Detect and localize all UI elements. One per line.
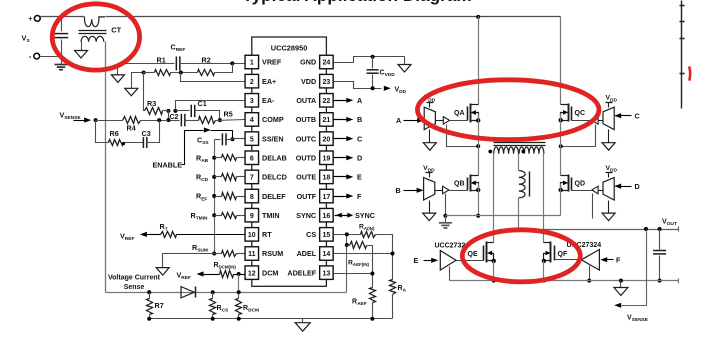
node RAEF bottom	[370, 317, 374, 321]
svg-text:C: C	[635, 111, 640, 120]
wire driver A return	[447, 125, 479, 147]
node output cap bottom	[658, 279, 662, 283]
svg-text:OUTE: OUTE	[296, 173, 316, 182]
wire B input arrow	[404, 190, 418, 192]
wire T1 right lead	[543, 154, 545, 243]
wire current sense up to CS pin	[346, 235, 348, 293]
svg-text:7: 7	[250, 175, 254, 182]
wire C1 to COMP node	[195, 111, 220, 121]
wire CREF to pin1	[180, 63, 245, 65]
wire QD source to rail	[560, 184, 562, 216]
capacitor CVDD	[372, 57, 374, 69]
wire C input arrow	[621, 115, 632, 117]
wire RAEFIN down	[367, 246, 373, 288]
driver C output buffer triangle	[592, 117, 598, 125]
svg-text:C1: C1	[198, 99, 207, 108]
svg-text:21: 21	[323, 117, 331, 124]
wire delay bus	[214, 140, 216, 254]
resistor R1	[144, 72, 155, 74]
svg-text:OUTC: OUTC	[296, 134, 316, 143]
capacitor CSS	[215, 139, 221, 141]
wire driver F return	[589, 266, 591, 281]
red ellipse around QA QC	[417, 80, 599, 140]
wire OUTA arrow	[334, 100, 348, 102]
wire + rail continues	[106, 16, 561, 18]
wire ENABLE	[182, 131, 204, 165]
svg-text:22: 22	[323, 98, 331, 105]
capacitor input	[61, 17, 63, 32]
svg-text:F: F	[616, 255, 621, 264]
svg-text:B: B	[357, 115, 362, 124]
wire VSENSE arrow	[74, 120, 87, 122]
wire T1 center tap	[518, 154, 520, 171]
resistor R7	[149, 293, 151, 299]
svg-text:RSUM: RSUM	[262, 249, 283, 258]
pin 1 box	[245, 55, 258, 69]
svg-text:12: 12	[248, 270, 256, 277]
resistor REF	[215, 196, 222, 198]
svg-text:13: 13	[323, 270, 331, 277]
svg-text:DELEF: DELEF	[262, 192, 286, 201]
pin 22 box	[320, 94, 334, 108]
wire VSENSE to R4	[96, 120, 123, 122]
red ellipse around QE QF	[462, 230, 580, 282]
svg-text:UCC28950: UCC28950	[271, 44, 308, 53]
node RCS top	[211, 290, 215, 294]
pin 21 box	[320, 113, 334, 127]
ground RSUM	[156, 268, 169, 276]
node T1 dot center	[521, 150, 525, 154]
svg-text:GND: GND	[300, 58, 316, 67]
pin 6 box	[245, 151, 258, 165]
transistor QE	[487, 242, 494, 244]
node RAB	[212, 156, 216, 160]
pin 14 box	[320, 247, 334, 261]
pin 15 box	[320, 228, 334, 242]
transistor QB	[467, 178, 469, 191]
wire QC leg bus upper	[560, 17, 562, 105]
resistor R4	[123, 117, 141, 124]
wire OUTE arrow	[334, 176, 348, 178]
node VOUT sense tap	[644, 227, 648, 231]
wire CS row	[334, 234, 361, 236]
ground bridge rail earth	[445, 216, 447, 223]
svg-text:3: 3	[250, 98, 254, 105]
pin 2 box	[245, 74, 258, 88]
svg-text:C2: C2	[170, 114, 179, 121]
wire R4 to node	[141, 120, 169, 122]
page border line	[681, 1, 683, 109]
wire driver D return	[592, 194, 594, 219]
resistor RAEF	[370, 288, 376, 303]
capacitor C1	[190, 105, 192, 118]
node COMP	[218, 118, 222, 122]
wire A input arrow	[404, 120, 418, 122]
wire F input arrow	[607, 259, 614, 261]
pin 12 box	[245, 266, 258, 280]
driver C buffer	[603, 107, 614, 129]
node driver B return	[443, 214, 447, 218]
inductor LOUT core bar	[529, 172, 531, 197]
ground bottom rail	[302, 319, 304, 323]
wire EA+ from divider	[181, 73, 245, 82]
svg-text:R5: R5	[224, 110, 233, 119]
svg-text:ENABLE: ENABLE	[153, 160, 183, 169]
wire - rail	[40, 56, 62, 58]
wire QB gate	[449, 190, 468, 192]
wire C2-R5	[185, 120, 199, 122]
svg-text:4: 4	[250, 117, 254, 124]
svg-text:2: 2	[250, 79, 254, 86]
driver D ground	[608, 201, 610, 214]
svg-text:R1: R1	[157, 55, 166, 64]
svg-text:1: 1	[250, 60, 254, 67]
resistor RT	[161, 232, 177, 238]
ground GND pin	[404, 57, 406, 65]
svg-text:24: 24	[323, 60, 331, 67]
node CS tap	[345, 232, 349, 236]
svg-text:RT: RT	[262, 230, 272, 239]
wire LOUT to VOUT rail	[518, 198, 520, 230]
svg-text:E: E	[414, 256, 419, 265]
resistor RCD	[215, 176, 222, 178]
wire QC-QD bus	[560, 114, 562, 176]
driver UCC27324 left triangle	[440, 251, 456, 271]
resistor R3	[144, 73, 145, 111]
svg-text:E: E	[357, 173, 362, 182]
wire secondary bottom rail	[450, 280, 679, 282]
svg-text:VREF: VREF	[262, 58, 282, 67]
wire R6 branch down	[96, 121, 109, 143]
svg-text:OUTB: OUTB	[296, 115, 316, 124]
wire QE source to rail	[493, 261, 495, 281]
node QA source return	[476, 144, 480, 148]
svg-text:DELCD: DELCD	[262, 173, 287, 182]
wire OUTD arrow	[334, 157, 348, 159]
node RDCM junction	[237, 290, 241, 294]
capacitor C2	[180, 114, 182, 127]
svg-text:QE: QE	[468, 251, 478, 258]
svg-text:C3: C3	[142, 129, 151, 138]
svg-text:15: 15	[323, 232, 331, 239]
pin 13 box	[320, 266, 334, 280]
wire RT to pin10	[177, 234, 245, 236]
op-amp U1 UCC28950 body	[252, 37, 327, 286]
wire COMP row	[169, 120, 180, 122]
svg-text:5: 5	[250, 136, 254, 143]
svg-text:F: F	[357, 192, 362, 201]
svg-text:D: D	[635, 182, 640, 191]
svg-text:-: -	[29, 52, 32, 61]
svg-text:Typical Application Diagram: Typical Application Diagram	[242, 0, 471, 5]
diode current sense	[181, 287, 194, 298]
svg-text:CT: CT	[111, 26, 121, 35]
wire C1 row	[176, 110, 190, 112]
pin 4 box	[245, 113, 258, 127]
svg-text:EA-: EA-	[262, 96, 275, 105]
wire C3 up	[147, 121, 160, 143]
svg-text:OUTA: OUTA	[296, 96, 316, 105]
pin 17 box	[320, 189, 334, 203]
svg-text:17: 17	[323, 194, 331, 201]
ground R1 branch	[125, 88, 138, 96]
svg-text:C: C	[357, 134, 362, 143]
resistor RCS	[212, 293, 214, 299]
wire R1-R2	[171, 72, 198, 74]
node driver F return	[587, 279, 591, 283]
node VSENSE	[94, 118, 98, 122]
svg-text:COMP: COMP	[262, 115, 284, 124]
svg-text:16: 16	[323, 213, 331, 220]
pin 8 box	[245, 189, 258, 203]
node A lower	[166, 109, 170, 113]
node SS	[231, 137, 235, 141]
wire R5 to pin4	[216, 120, 245, 121]
svg-text:SYNC: SYNC	[296, 211, 316, 220]
node R4 right	[166, 118, 170, 122]
svg-text:19: 19	[323, 155, 331, 162]
node ADEL	[391, 252, 395, 256]
resistor RDCM	[238, 293, 240, 299]
transistor QC	[571, 107, 573, 121]
pin 9 box	[245, 208, 258, 222]
svg-text:9: 9	[250, 213, 254, 220]
capacitor output	[659, 230, 661, 250]
wire driver B return	[445, 194, 447, 216]
svg-text:B: B	[396, 186, 401, 195]
wire + rail	[41, 16, 85, 18]
wire R6-C3	[124, 142, 144, 144]
svg-text:QA: QA	[454, 110, 465, 117]
svg-text:EA+: EA+	[262, 77, 276, 86]
pin 5 box	[245, 132, 258, 146]
svg-text:QC: QC	[575, 110, 586, 117]
pin 7 box	[245, 170, 258, 184]
pin 20 box	[320, 132, 334, 146]
node VREF divider tap	[230, 61, 234, 65]
wire D input arrow	[621, 186, 632, 188]
red annotation dash	[689, 67, 690, 81]
resistor RSUM	[215, 253, 222, 255]
driver D output buffer triangle	[592, 186, 598, 194]
ground input earth	[61, 57, 63, 65]
wire GND pin24	[334, 57, 405, 63]
wire QE gate	[457, 260, 484, 262]
wire QC gate	[572, 120, 592, 122]
wire enable to SS	[211, 131, 233, 140]
svg-text:SYNC: SYNC	[355, 211, 375, 220]
driver B output buffer triangle	[443, 186, 449, 194]
wire ADELEF row	[334, 273, 373, 275]
wire RSUM ground branch	[163, 254, 215, 268]
svg-text:DCM: DCM	[262, 268, 278, 277]
red ellipse around CT	[52, 4, 139, 70]
pin 16 box	[320, 208, 334, 222]
svg-text:+: +	[28, 14, 33, 23]
transistor QD	[571, 178, 573, 191]
node T1 dot left	[488, 150, 492, 154]
wire R1 branch	[132, 73, 144, 89]
wire OUTB arrow	[334, 119, 348, 121]
svg-text:D: D	[357, 153, 362, 162]
wire QF gate	[555, 259, 582, 261]
resistor R6	[109, 140, 124, 146]
resistor RDCMIN	[220, 271, 234, 278]
wire VDD arrow	[384, 86, 391, 91]
svg-text:R3: R3	[147, 99, 156, 108]
svg-text:VDD: VDD	[301, 77, 316, 86]
wire CT secondary left lead	[81, 42, 83, 51]
transformer CT	[85, 17, 106, 27]
wire RAIN to RA	[376, 235, 393, 280]
wire QB source to rail	[478, 184, 480, 216]
wire R2 up to VREF	[215, 64, 233, 73]
svg-text:SS/EN: SS/EN	[262, 134, 284, 143]
svg-text:Voltage Current: Voltage Current	[108, 275, 161, 282]
wire RT row	[140, 232, 147, 237]
pin 10 box	[245, 228, 258, 242]
resistor R5	[199, 117, 216, 124]
svg-text:14: 14	[323, 251, 331, 258]
node QC source return	[559, 144, 563, 148]
pin 3 box	[245, 94, 258, 108]
resistor RA	[390, 280, 396, 295]
node top rail to QA leg	[476, 15, 480, 19]
svg-text:R2: R2	[202, 55, 211, 64]
node RDCM top	[237, 272, 241, 276]
svg-text:DELAB: DELAB	[262, 153, 287, 162]
resistor RAIN	[361, 232, 376, 238]
node R6-C3	[122, 142, 125, 145]
svg-text:A: A	[396, 116, 401, 125]
node EA+ tap	[179, 71, 183, 75]
svg-text:QD: QD	[575, 180, 586, 187]
driver B ground	[429, 201, 431, 214]
transistor QA	[467, 107, 469, 121]
inductor LOUT	[519, 171, 525, 198]
svg-text:18: 18	[323, 175, 331, 182]
svg-text:ADELEF: ADELEF	[287, 268, 316, 277]
ground VREF bypass	[117, 64, 119, 75]
wire VREF row	[118, 63, 175, 65]
wire QA-QB bus	[478, 114, 480, 176]
resistor RAB	[215, 157, 222, 159]
capacitor CREF	[175, 56, 177, 70]
node RSUM	[212, 252, 216, 256]
svg-text:R4: R4	[127, 124, 136, 133]
svg-text:8: 8	[250, 194, 254, 201]
transformer T1 secondary winding	[494, 147, 519, 154]
svg-text:OUTF: OUTF	[297, 192, 317, 201]
wire E input arrow	[424, 260, 432, 262]
transformer T1 core	[494, 142, 546, 144]
svg-text:Sense: Sense	[124, 284, 145, 291]
transistor QF	[544, 242, 551, 244]
node C3 top	[157, 118, 161, 122]
svg-text:CS: CS	[306, 230, 316, 239]
svg-text:QF: QF	[558, 251, 568, 258]
wire DCM row	[197, 271, 204, 276]
node secondary ground	[619, 279, 623, 283]
svg-text:20: 20	[323, 136, 331, 143]
node A upper	[173, 109, 177, 113]
node RTMIN	[212, 213, 216, 217]
resistor RTMIN	[215, 215, 222, 217]
wire ADEL row	[334, 253, 393, 255]
svg-text:23: 23	[323, 79, 331, 86]
wire EA- row	[176, 101, 245, 111]
svg-text:R6: R6	[110, 129, 119, 138]
wire VSENSE output	[622, 230, 647, 306]
node REF	[212, 194, 216, 198]
node ADELEF	[370, 272, 374, 276]
resistor RAEFIN	[347, 245, 350, 247]
driver D buffer	[603, 178, 614, 200]
wire bottom rail	[150, 318, 393, 320]
node R7 top	[147, 290, 151, 294]
node AEF tap	[345, 243, 349, 247]
ground secondary	[620, 281, 622, 288]
ground CT secondary	[75, 51, 88, 59]
svg-text:OUTD: OUTD	[296, 153, 316, 162]
svg-text:11: 11	[248, 251, 256, 258]
pin 24 box	[320, 55, 334, 69]
pin 23 box	[320, 74, 334, 88]
node R1 left	[142, 71, 146, 75]
driver A output buffer triangle	[443, 117, 449, 125]
wire QF source to rail	[543, 261, 545, 281]
wire OUTC arrow	[334, 138, 348, 140]
wire bridge bottom rail	[446, 215, 561, 217]
node CVDD top	[371, 55, 375, 59]
wire driver E return	[449, 267, 451, 281]
node RCD	[212, 175, 216, 179]
node CVDD bottom	[371, 86, 375, 90]
driver A buffer	[424, 107, 435, 129]
wire T1 left lead	[493, 154, 495, 243]
node output cap top	[658, 227, 662, 231]
svg-text:TMIN: TMIN	[262, 211, 280, 220]
svg-text:R7: R7	[155, 301, 164, 310]
resistor R2	[198, 70, 215, 76]
wire driver C return	[561, 125, 596, 147]
svg-text:10: 10	[248, 232, 256, 239]
driver A ground	[429, 130, 431, 143]
wire VOUT rail	[519, 229, 679, 231]
pin 19 box	[320, 151, 334, 165]
wire QA gate	[450, 120, 468, 122]
pin 11 box	[245, 247, 258, 261]
wire CT secondary to current sense	[105, 42, 107, 293]
capacitor C3	[142, 137, 144, 148]
driver B buffer	[424, 178, 435, 200]
pin 18 box	[320, 170, 334, 184]
svg-text:QB: QB	[454, 180, 465, 187]
wire RDCM vertical	[238, 275, 240, 293]
wire QD gate	[572, 190, 592, 192]
wire SYNC arrow	[335, 215, 352, 217]
wire QA leg bus upper	[478, 17, 480, 105]
wire SS to pin5	[233, 138, 245, 140]
wire VDD pin23	[334, 82, 382, 89]
driver C ground	[608, 130, 610, 143]
svg-text:A: A	[357, 96, 362, 105]
wire OUTF arrow	[334, 196, 348, 198]
svg-text:6: 6	[250, 155, 254, 162]
driver UCC27324 right triangle	[581, 250, 599, 271]
svg-text:ADEL: ADEL	[297, 249, 317, 258]
